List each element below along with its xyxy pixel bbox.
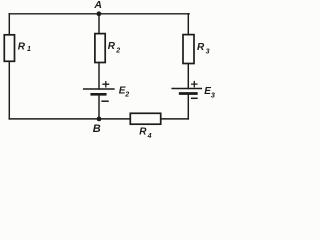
wire right vertical upper	[187, 14, 189, 35]
wire right branch lower	[187, 94, 189, 119]
resistor R1	[4, 35, 14, 62]
svg-text:2: 2	[115, 48, 120, 55]
wire middle branch lower	[98, 94, 100, 119]
svg-text:R: R	[18, 41, 26, 52]
svg-text:B: B	[93, 123, 101, 135]
resistor R3	[183, 35, 194, 64]
wire left vertical lower	[8, 61, 10, 119]
svg-text:R: R	[197, 42, 205, 53]
node B junction dot	[97, 117, 102, 122]
battery E2 plus sign	[103, 82, 109, 87]
svg-text:A: A	[93, 0, 102, 11]
battery E3 minus sign	[192, 97, 197, 99]
resistor R4	[130, 113, 160, 124]
battery E3 positive plate	[172, 88, 201, 90]
svg-text:3: 3	[206, 48, 210, 55]
battery E2 positive plate	[84, 88, 114, 90]
battery E3 negative plate	[180, 92, 196, 95]
resistor R2	[95, 34, 105, 63]
wire middle branch mid	[98, 63, 100, 90]
wire middle branch upper	[98, 14, 100, 34]
wire left vertical upper	[8, 14, 10, 35]
svg-text:R: R	[139, 127, 147, 138]
battery E2 minus sign	[102, 100, 108, 102]
svg-text:3: 3	[211, 91, 216, 100]
svg-text:R: R	[108, 41, 116, 52]
wire bottom right	[161, 118, 189, 120]
svg-text:2: 2	[124, 92, 129, 99]
svg-text:4: 4	[147, 133, 152, 140]
wire right branch mid	[187, 64, 189, 89]
battery E2 negative plate	[92, 93, 105, 96]
svg-text:1: 1	[27, 46, 31, 53]
node A junction dot	[97, 11, 102, 16]
wire top (A rail)	[9, 13, 189, 15]
battery E3 plus sign	[192, 82, 197, 87]
wire bottom left (B rail)	[9, 118, 130, 120]
